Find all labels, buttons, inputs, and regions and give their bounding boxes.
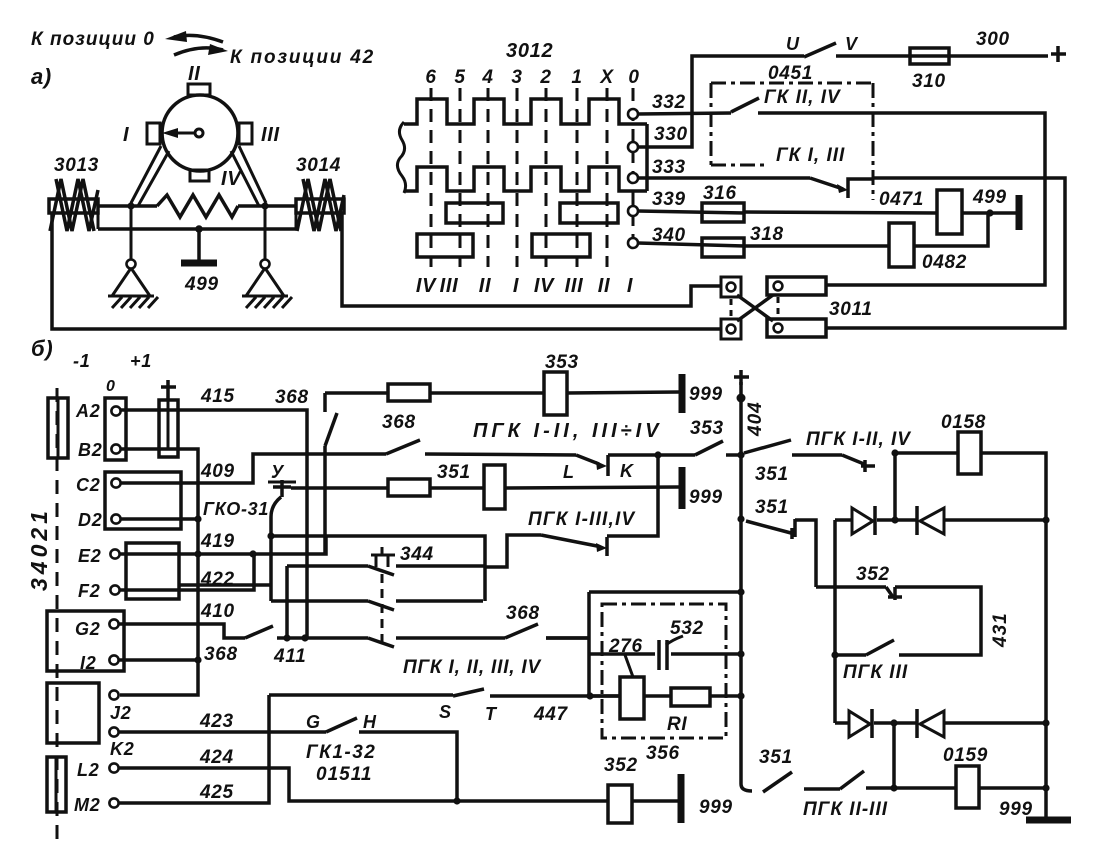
svg-text:353: 353 xyxy=(545,352,579,373)
svg-text:310: 310 xyxy=(912,71,946,92)
svg-text:ПГК I-II, IV: ПГК I-II, IV xyxy=(806,429,911,450)
svg-text:300: 300 xyxy=(976,29,1010,50)
svg-text:K2: K2 xyxy=(110,739,134,759)
svg-text:S: S xyxy=(439,702,452,722)
svg-text:351: 351 xyxy=(759,747,793,768)
svg-text:G2: G2 xyxy=(75,619,100,639)
svg-text:ГК1-32: ГК1-32 xyxy=(306,742,376,763)
svg-text:ПГК I-II, III÷IV: ПГК I-II, III÷IV xyxy=(473,420,663,442)
svg-text:3014: 3014 xyxy=(296,155,341,176)
svg-text:332: 332 xyxy=(652,92,686,113)
svg-text:3012: 3012 xyxy=(506,40,553,62)
svg-text:-1: -1 xyxy=(73,351,90,371)
svg-text:ГКО-31: ГКО-31 xyxy=(203,499,269,519)
svg-text:447: 447 xyxy=(533,704,569,725)
svg-text:404: 404 xyxy=(745,401,766,437)
svg-text:M2: M2 xyxy=(74,795,100,815)
svg-text:368: 368 xyxy=(382,412,416,433)
svg-text:0: 0 xyxy=(106,378,116,395)
svg-text:333: 333 xyxy=(652,157,686,178)
svg-text:6: 6 xyxy=(425,67,436,88)
svg-text:425: 425 xyxy=(199,782,234,803)
svg-text:431: 431 xyxy=(990,612,1011,648)
svg-text:б): б) xyxy=(31,336,53,361)
svg-text:II: II xyxy=(188,63,201,85)
svg-text:U: U xyxy=(786,34,800,54)
svg-text:L2: L2 xyxy=(77,760,99,780)
svg-text:ПГК I-III,IV: ПГК I-III,IV xyxy=(528,509,635,530)
svg-text:368: 368 xyxy=(506,603,540,624)
svg-text:X: X xyxy=(599,67,614,88)
svg-text:532: 532 xyxy=(670,618,704,639)
svg-text:+1: +1 xyxy=(130,351,152,371)
svg-text:ГК II, IV: ГК II, IV xyxy=(764,87,841,108)
svg-text:III: III xyxy=(440,275,459,297)
svg-text:353: 353 xyxy=(690,418,724,439)
svg-text:К позиции 0: К позиции 0 xyxy=(31,29,155,50)
svg-text:352: 352 xyxy=(604,755,638,776)
svg-text:I: I xyxy=(513,275,519,297)
svg-text:0158: 0158 xyxy=(941,412,986,433)
svg-text:D2: D2 xyxy=(78,510,102,530)
svg-text:У: У xyxy=(271,462,285,482)
svg-text:34021: 34021 xyxy=(26,507,52,591)
svg-text:3: 3 xyxy=(511,67,522,88)
svg-text:I: I xyxy=(627,275,633,297)
svg-text:I2: I2 xyxy=(80,653,96,673)
svg-text:999: 999 xyxy=(689,487,723,508)
svg-text:276: 276 xyxy=(608,636,643,657)
svg-text:III: III xyxy=(565,275,584,297)
svg-text:II: II xyxy=(479,275,492,297)
svg-text:3013: 3013 xyxy=(54,155,99,176)
svg-text:424: 424 xyxy=(199,747,234,768)
svg-text:318: 318 xyxy=(750,224,784,245)
svg-text:356: 356 xyxy=(646,743,680,764)
svg-text:J2: J2 xyxy=(110,703,131,723)
svg-text:V: V xyxy=(845,34,859,54)
svg-text:C2: C2 xyxy=(76,475,100,495)
svg-text:339: 339 xyxy=(652,189,686,210)
svg-text:K: K xyxy=(620,461,635,481)
svg-text:К позиции 42: К позиции 42 xyxy=(230,47,375,68)
svg-text:3011: 3011 xyxy=(829,299,873,320)
svg-text:ПГК I, II, III, IV: ПГК I, II, III, IV xyxy=(403,657,542,678)
svg-text:H: H xyxy=(363,712,377,732)
svg-text:T: T xyxy=(485,704,498,724)
svg-text:368: 368 xyxy=(275,387,309,408)
svg-text:499: 499 xyxy=(184,274,219,295)
svg-text:0451: 0451 xyxy=(768,63,813,84)
svg-text:368: 368 xyxy=(204,644,238,665)
svg-text:422: 422 xyxy=(200,569,235,590)
svg-text:B2: B2 xyxy=(78,440,102,460)
svg-text:352: 352 xyxy=(856,564,890,585)
svg-text:I: I xyxy=(123,124,129,146)
svg-text:01511: 01511 xyxy=(316,764,372,785)
svg-text:415: 415 xyxy=(200,386,235,407)
svg-text:E2: E2 xyxy=(78,546,101,566)
svg-text:IV: IV xyxy=(416,275,437,297)
svg-text:411: 411 xyxy=(273,646,306,667)
svg-text:423: 423 xyxy=(199,711,234,732)
svg-text:499: 499 xyxy=(972,187,1007,208)
svg-text:а): а) xyxy=(31,64,52,89)
svg-text:II: II xyxy=(598,275,611,297)
svg-text:344: 344 xyxy=(400,544,434,565)
svg-text:III: III xyxy=(261,124,280,146)
svg-text:IV: IV xyxy=(221,168,242,190)
svg-text:0482: 0482 xyxy=(922,252,967,273)
svg-text:1: 1 xyxy=(571,67,582,88)
svg-text:ГК I, III: ГК I, III xyxy=(776,145,845,166)
svg-text:A2: A2 xyxy=(75,401,100,421)
svg-text:330: 330 xyxy=(654,124,688,145)
svg-text:ПГК II-III: ПГК II-III xyxy=(803,799,888,820)
svg-text:316: 316 xyxy=(703,183,737,204)
svg-text:4: 4 xyxy=(481,67,493,88)
svg-text:0471: 0471 xyxy=(879,189,924,210)
svg-text:999: 999 xyxy=(699,797,733,818)
svg-text:409: 409 xyxy=(200,461,235,482)
svg-text:999: 999 xyxy=(999,799,1033,820)
svg-text:351: 351 xyxy=(437,462,471,483)
svg-text:F2: F2 xyxy=(78,581,100,601)
svg-text:RI: RI xyxy=(667,714,687,735)
svg-text:2: 2 xyxy=(539,67,551,88)
svg-text:G: G xyxy=(306,712,321,732)
svg-text:ПГК III: ПГК III xyxy=(843,662,908,683)
svg-text:0: 0 xyxy=(628,67,639,88)
svg-text:5: 5 xyxy=(454,67,465,88)
svg-text:L: L xyxy=(563,462,575,482)
svg-text:351: 351 xyxy=(755,464,789,485)
svg-text:IV: IV xyxy=(534,275,555,297)
svg-text:999: 999 xyxy=(689,384,723,405)
svg-text:410: 410 xyxy=(200,601,235,622)
svg-text:0159: 0159 xyxy=(943,745,988,766)
svg-text:351: 351 xyxy=(755,497,789,518)
svg-text:419: 419 xyxy=(200,531,235,552)
